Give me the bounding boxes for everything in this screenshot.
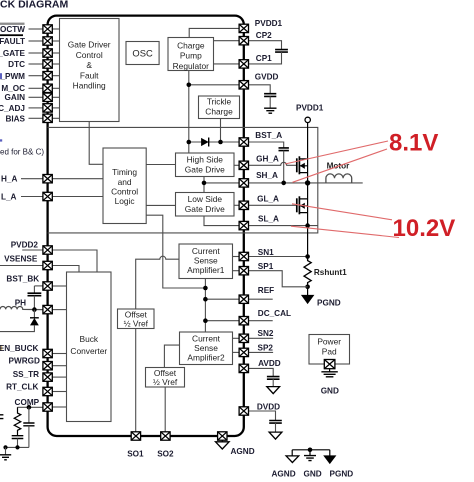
svg-text:Current: Current: [192, 333, 221, 343]
svg-text:Logic: Logic: [115, 196, 135, 206]
capacitor C-bootstrap BST_A: [279, 148, 289, 151]
ground (earth) cluster GND: [304, 456, 316, 461]
svg-text:&: &: [86, 60, 92, 70]
wire wire Offset1 to SO1 pin: [135, 329, 137, 432]
wire wire PVDD2 to Buck: [52, 250, 97, 272]
svg-text:CP2: CP2: [256, 31, 272, 40]
junction comp rail node 2: [3, 445, 7, 449]
wire wire GDC bottom to Timing left: [89, 122, 103, 165]
svg-text:Trickle: Trickle: [207, 96, 232, 106]
wire stub I_PWM pin to GDC: [52, 75, 59, 77]
wire stub BST_BK to Buck: [52, 285, 66, 287]
svg-text:PGND: PGND: [330, 469, 354, 478]
annotation line to SL_A: [291, 226, 399, 237]
junction shunt bottom: [305, 285, 310, 290]
wire wire GVDD pin: [189, 84, 239, 86]
wire wire Trickle Charge to BST node: [220, 119, 222, 143]
wire wire GVDD net vertical CPR to HSGD: [188, 71, 190, 154]
svg-text:SH_A: SH_A: [256, 171, 278, 180]
label overline OCTW (gray bar): [0, 23, 25, 25]
annotation line to GL_A: [292, 204, 392, 220]
wire stub GAIN pin to GDC: [52, 96, 59, 98]
svg-text:M_OC: M_OC: [1, 84, 25, 93]
svg-text:CK DIAGRAM: CK DIAGRAM: [0, 0, 68, 11]
pin SH_A: [239, 179, 248, 187]
fragment blue mark 2: [0, 139, 2, 141]
pin PowerPad pin: [324, 360, 335, 369]
wire wire CSA2 left to Offset2: [164, 345, 179, 367]
wire stub AGND pin to triangle: [221, 440, 223, 442]
diode D2 (buck catch diode): [0, 310, 39, 332]
svg-text:GAIN: GAIN: [5, 93, 26, 102]
junction sense chain node 1: [203, 286, 208, 291]
wire wire DVDD cap to AGND: [275, 423, 277, 432]
svg-text:PWRGD: PWRGD: [9, 357, 40, 366]
pin GAIN: [43, 93, 52, 101]
wire stub DTC pin to GDC: [52, 63, 59, 65]
ground (earth) comp ground: [0, 455, 11, 460]
pin SP2: [239, 348, 248, 356]
wire CSA1 left input with crossover hop: [136, 256, 179, 309]
wire wire PVDD1 to high FET drain/source: [307, 123, 309, 183]
block U-OFS2 offset half vref 2: [146, 368, 185, 388]
ground (AGND open triangle) AGND pin ground: [216, 442, 230, 449]
pin GL_A: [239, 201, 248, 209]
wire wire SH_A internal: [204, 182, 239, 184]
svg-text:FAULT: FAULT: [0, 37, 25, 46]
resistor R-comp: [14, 407, 21, 435]
terminal PVDD1 (supply circle): [305, 117, 310, 122]
capacitor C-GVDD bypass: [264, 94, 276, 97]
wire stub CSA2 to SP2: [233, 351, 240, 353]
wire stub comp rail to ground: [5, 447, 7, 454]
svg-text:ed for B& C): ed for B& C): [0, 147, 44, 156]
pin SN1: [239, 252, 248, 260]
pin SN2: [239, 334, 248, 342]
wire stub cluster AGND: [291, 450, 293, 456]
svg-text:½ Vref: ½ Vref: [124, 319, 149, 329]
wire stub HSGD to GH_A pin: [234, 164, 239, 166]
block U-CSA2 current sense amplifier 2: [180, 332, 233, 365]
ground (AGND open triangle) AGND under AVDD cap: [267, 387, 280, 394]
wire stub cluster PGND: [329, 450, 331, 456]
label overline FAULT: [0, 34, 23, 36]
svg-text:BST_BK: BST_BK: [6, 275, 39, 284]
pin OC_ADJ: [43, 104, 52, 112]
svg-text:AVDD: AVDD: [258, 359, 281, 368]
svg-text:Handling: Handling: [73, 81, 106, 91]
wire stub FAULT label to pin: [29, 40, 43, 42]
svg-text:VSENSE: VSENSE: [4, 255, 38, 264]
pin SL_A: [239, 221, 248, 229]
fragment blue mark 1: [0, 73, 2, 79]
junction shunt top: [305, 254, 310, 259]
junction PH node: [32, 307, 37, 312]
svg-text:Pad: Pad: [322, 347, 337, 357]
junction comp rail node 1: [15, 445, 19, 449]
svg-text:DVDD: DVDD: [257, 403, 280, 412]
svg-text:Fault: Fault: [80, 70, 99, 80]
block U-LS low side gate drive: [176, 193, 235, 217]
svg-text:Charge: Charge: [177, 40, 205, 50]
wire stub SS_TR to Buck: [52, 376, 66, 378]
wire wire REF internal: [205, 298, 239, 300]
wire stub shunt to PGND: [307, 287, 309, 296]
wire wire AVDD to cap: [249, 368, 274, 376]
wire stub INL_A label to pin: [21, 196, 43, 198]
svg-text:Rshunt1: Rshunt1: [314, 268, 347, 277]
wire wire low FET to SN1: [307, 183, 309, 257]
wire stub SP2 external: [249, 351, 274, 353]
svg-text:Pump: Pump: [180, 51, 202, 61]
svg-text:OCTW: OCTW: [0, 25, 25, 34]
svg-text:Regulator: Regulator: [173, 61, 210, 71]
fragment cap at left edge: [0, 415, 3, 419]
svg-text:½ Vref: ½ Vref: [153, 377, 178, 387]
wire stub PH to Buck: [52, 309, 66, 311]
pin INH_A: [43, 175, 52, 183]
wire stub EN_BUCK to Buck: [52, 353, 66, 355]
block U-HS high side gate drive: [176, 153, 235, 177]
wire stub EN_GATE label to pin: [29, 52, 43, 54]
svg-text:H_A: H_A: [1, 175, 17, 184]
annotation line to GH_A: [285, 141, 388, 164]
wire stub OC_ADJ pin to GDC: [52, 107, 59, 109]
wire wire Timing to High Side Gate Drive: [146, 164, 175, 166]
svg-text:SN1: SN1: [258, 248, 274, 257]
pin BST_BK: [43, 282, 52, 290]
svg-text:Timing: Timing: [112, 167, 137, 177]
wire stub COMP to parallel cap: [28, 407, 30, 423]
svg-text:AGND: AGND: [272, 469, 296, 478]
wire stub SN2 external: [249, 337, 274, 339]
svg-text:10.2V: 10.2V: [393, 215, 456, 242]
annotation line to SH_A: [293, 149, 388, 182]
wire stub BIAS label to pin: [29, 117, 43, 119]
ground (AGND open triangle) AGND under DVDD cap: [269, 432, 282, 439]
block U-CPR charge pump regulator: [168, 38, 214, 72]
pin SP1: [239, 267, 248, 275]
capacitor C-comp series: [12, 436, 24, 439]
pin DTC: [43, 60, 52, 68]
svg-text:Amplifier1: Amplifier1: [187, 265, 225, 275]
pin PWRGD: [43, 362, 52, 370]
wire stub PVDD2 external: [22, 249, 43, 251]
junction REF node: [203, 297, 208, 302]
block U-BUCK buck converter: [67, 272, 112, 422]
wire stub DTC label to pin: [29, 63, 43, 65]
block U-OSC oscillator: [126, 42, 159, 65]
wire wire Timing to Low Side Gate Drive: [146, 204, 175, 206]
wire wire comp ground rail: [6, 446, 29, 448]
wire wire COMP external: [18, 406, 43, 408]
wire wire GL_A to low-side FET gate: [249, 204, 297, 206]
svg-text:GL_A: GL_A: [257, 195, 279, 204]
svg-text:C_ADJ: C_ADJ: [0, 104, 25, 113]
junction cluster GND node: [308, 448, 313, 453]
wire wire flying cap to CP1: [249, 52, 282, 64]
wire stub RT_CLK to Buck: [52, 391, 66, 393]
wire bus remnant lines A/B with right vertical: [48, 127, 318, 232]
pin AVDD: [239, 364, 248, 372]
pin INL_A: [43, 192, 52, 200]
pin DVDD: [239, 407, 248, 415]
svg-text:_GATE: _GATE: [0, 49, 26, 58]
wire stub power pad to GND: [329, 368, 331, 371]
svg-text:SP2: SP2: [258, 344, 274, 353]
wire stub cluster GND: [309, 450, 311, 456]
fragment tan highlight: [0, 346, 2, 351]
wire stub INH_A label to pin: [21, 178, 43, 180]
pin RT_CLK: [43, 387, 52, 395]
svg-text:Buck: Buck: [79, 334, 98, 344]
svg-text:CP1: CP1: [256, 54, 272, 63]
block U-PAD power pad: [309, 335, 350, 365]
svg-text:RT_CLK: RT_CLK: [6, 382, 38, 391]
wire stub OCTW pin to GDC: [52, 28, 59, 30]
IC boundary outline: [48, 16, 244, 436]
junction COMP node: [27, 405, 32, 410]
wire stub BST_BK cap to PH: [33, 296, 35, 310]
wire stub GAIN label to pin: [29, 96, 43, 98]
wire wire SL_A to LSGD bottom: [204, 216, 239, 226]
svg-text:COMP: COMP: [15, 398, 40, 407]
capacitor C-comp parallel: [23, 423, 34, 426]
pin GH_A: [239, 161, 248, 169]
block U-TC trickle charge: [199, 96, 240, 119]
inductor buck L: [0, 306, 43, 309]
wire stub BST_BK cap top: [33, 286, 35, 293]
svg-text:Gate Drive: Gate Drive: [185, 165, 225, 175]
wire wire SH_A to motor: [249, 182, 363, 184]
svg-text:Gate Drive: Gate Drive: [185, 204, 225, 214]
junction GVDD net: [187, 83, 192, 88]
pin I_PWM: [43, 72, 52, 80]
wire wire INH_A pin to Timing: [52, 178, 103, 180]
inductor motor winding: [326, 174, 352, 183]
wire wire VSENSE external: [0, 265, 43, 267]
svg-text:DTC: DTC: [8, 60, 25, 69]
ground (PGND filled triangle) cluster PGND: [324, 456, 335, 463]
svg-text:SL_A: SL_A: [258, 214, 279, 223]
svg-text:Gate Driver: Gate Driver: [68, 40, 111, 50]
svg-text:BST_A: BST_A: [255, 131, 282, 140]
pin REF: [239, 295, 248, 303]
wire wire AVDD cap to AGND: [272, 379, 274, 386]
svg-text:PVDD1: PVDD1: [296, 103, 324, 112]
wire wire Offset2 to SO2 pin: [164, 387, 166, 432]
junction trickle/BST node: [218, 140, 223, 145]
wire wire VSENSE to Buck: [52, 266, 79, 273]
wire stub CSA1 to SP1: [233, 270, 240, 272]
svg-text:Control: Control: [111, 186, 138, 196]
wire stub M_OC pin to GDC: [52, 87, 59, 89]
wire wire GVDD cap to ground: [269, 96, 271, 108]
pin EN_BUCK: [43, 349, 52, 357]
diode D1 (GVDD to BST_A): [189, 138, 239, 147]
wire wire CSA chain vertical: [204, 279, 206, 333]
block U-OFS1 offset half vref 1: [118, 309, 155, 329]
wire wire SP1 to shunt bottom: [249, 271, 308, 287]
svg-text:PH: PH: [15, 299, 26, 308]
pin FAULT: [43, 37, 52, 45]
wire wire BST_BK to cap: [34, 285, 43, 287]
junction FET midpoint SH_A: [305, 180, 310, 185]
svg-text:Control: Control: [76, 50, 103, 60]
svg-text:EN_BUCK: EN_BUCK: [0, 344, 38, 353]
svg-text:OSC: OSC: [132, 47, 153, 58]
svg-text:Converter: Converter: [70, 346, 107, 356]
wire stub M_OC label to pin: [29, 87, 43, 89]
wire wire CP1 pin to Charge Pump: [214, 63, 240, 65]
junction SL_A node: [305, 223, 310, 228]
wire stub LSGD to GL_A pin: [234, 204, 239, 206]
pin COMP: [43, 403, 52, 411]
wire wire ground cluster: [292, 449, 330, 451]
wire stub EN_GATE pin to GDC: [52, 52, 59, 54]
wire stub comp cap to rail: [17, 439, 19, 448]
wire stub OCTW label to pin: [29, 28, 43, 30]
svg-text:DC_CAL: DC_CAL: [258, 309, 291, 318]
svg-text:SN2: SN2: [258, 329, 274, 338]
svg-text:REF: REF: [258, 286, 274, 295]
pin OCTW: [43, 25, 52, 33]
wire stub parallel cap to rail: [28, 426, 30, 448]
svg-text:Sense: Sense: [194, 343, 218, 353]
svg-text:and: and: [118, 177, 132, 187]
pin EN_GATE: [43, 49, 52, 57]
wire wire SN1 to shunt: [249, 256, 308, 258]
pin VSENSE: [43, 261, 52, 269]
pin BIAS: [43, 114, 52, 122]
wire stub I_PWM label to pin: [29, 75, 43, 77]
pin CP1: [239, 60, 248, 68]
junction diode anode on GVDD net: [187, 140, 192, 145]
wire wire Timing to sense-chain node: [146, 215, 205, 288]
pin AGND: [218, 432, 227, 440]
svg-text:GND: GND: [304, 469, 322, 478]
svg-text:SO1: SO1: [127, 450, 144, 459]
wire wire PVDD1 pin to Charge Pump top: [189, 28, 239, 37]
wire stub REF external: [249, 298, 273, 300]
svg-text:Current: Current: [192, 246, 221, 256]
capacitor C-DVDD: [269, 421, 282, 424]
pin DC_CAL: [239, 317, 248, 325]
capacitor C-BST_BK bootstrap: [28, 293, 42, 296]
ground (PGND filled triangle) PGND under shunt: [302, 295, 314, 303]
wire stub FAULT pin to GDC: [52, 40, 59, 42]
svg-text:PGND: PGND: [317, 298, 341, 307]
junction DC_CAL node: [203, 318, 208, 323]
svg-text:High Side: High Side: [187, 155, 224, 165]
svg-text:GND: GND: [321, 386, 339, 395]
svg-text:8.1V: 8.1V: [389, 129, 438, 156]
wire wire bootstrap cap to SH_A: [283, 151, 285, 183]
wire wire CP2 pin to Charge Pump: [214, 40, 240, 42]
svg-text:L_A: L_A: [1, 193, 17, 202]
block U-CSA1 current sense amplifier 1: [179, 244, 233, 279]
pin SS_TR: [43, 373, 52, 381]
svg-text:Low Side: Low Side: [188, 194, 223, 204]
svg-text:Sense: Sense: [194, 256, 218, 266]
wire wire CP2 to flying cap: [249, 41, 282, 50]
wire wire INL_A pin to Timing: [52, 196, 103, 198]
svg-text:_PWM: _PWM: [0, 72, 25, 81]
svg-text:PVDD2: PVDD2: [11, 241, 39, 250]
wire GH_A to high-side FET gate (hop over cap wire): [249, 162, 297, 165]
svg-text:SS_TR: SS_TR: [13, 370, 39, 379]
pin CP2: [239, 37, 248, 45]
pin GVDD: [239, 81, 248, 89]
junction bootstrap-SH_A: [281, 181, 286, 186]
pin M_OC: [43, 84, 52, 92]
pin PH: [43, 305, 52, 313]
svg-text:PVDD1: PVDD1: [255, 19, 283, 28]
wire stub OC_ADJ label to pin: [29, 107, 43, 109]
pin BST_A: [239, 138, 248, 146]
svg-text:Power: Power: [317, 337, 341, 347]
block U-GDC Gate Driver Control: [60, 19, 120, 122]
transistor Q2 low-side (NMOS): [297, 196, 308, 214]
wire wire BST_A to bootstrap cap: [249, 142, 284, 148]
pin PVDD1: [239, 24, 248, 32]
wire wire DVDD to cap: [249, 411, 276, 421]
svg-text:BIAS: BIAS: [5, 114, 25, 123]
wire wire DC_CAL internal: [205, 320, 239, 322]
svg-text:GVDD: GVDD: [255, 73, 279, 82]
svg-text:AGND: AGND: [231, 447, 255, 456]
wire stub COMP to Buck: [52, 406, 66, 408]
svg-text:SO2: SO2: [157, 450, 174, 459]
capacitor C-AVDD: [267, 377, 280, 380]
block U-TCL timing and control logic: [103, 148, 146, 224]
junction SH_A internal node: [202, 181, 207, 186]
ground (earth) GVDD: [264, 108, 276, 113]
svg-text:GH_A: GH_A: [256, 155, 279, 164]
ground (earth) power pad GND: [321, 372, 337, 377]
pin PVDD2: [43, 246, 52, 254]
capacitor C-fly CP1-CP2: [275, 50, 288, 53]
svg-text:SP1: SP1: [258, 262, 274, 271]
resistor Rshunt1: [304, 257, 311, 287]
svg-text:Charge: Charge: [205, 107, 233, 117]
transistor Q1 high-side (NMOS): [297, 156, 308, 174]
wire wire HSGD bottom to LSGD top: [203, 177, 205, 193]
pin SO2: [161, 432, 170, 440]
wire stub DC_CAL external: [249, 320, 273, 322]
pin SO1: [131, 432, 140, 440]
wire wire GVDD to bypass cap: [249, 85, 271, 94]
svg-text:Amplifier2: Amplifier2: [187, 352, 225, 362]
wire wire SL_A external: [249, 225, 318, 227]
wire stub BIAS pin to GDC: [52, 117, 59, 119]
wire stub CSA1 to SN1: [233, 256, 240, 258]
ground (AGND open triangle) cluster AGND: [286, 456, 299, 463]
wire stub CSA2 to SN2: [233, 337, 240, 339]
wire stub PWRGD to Buck: [52, 365, 66, 367]
